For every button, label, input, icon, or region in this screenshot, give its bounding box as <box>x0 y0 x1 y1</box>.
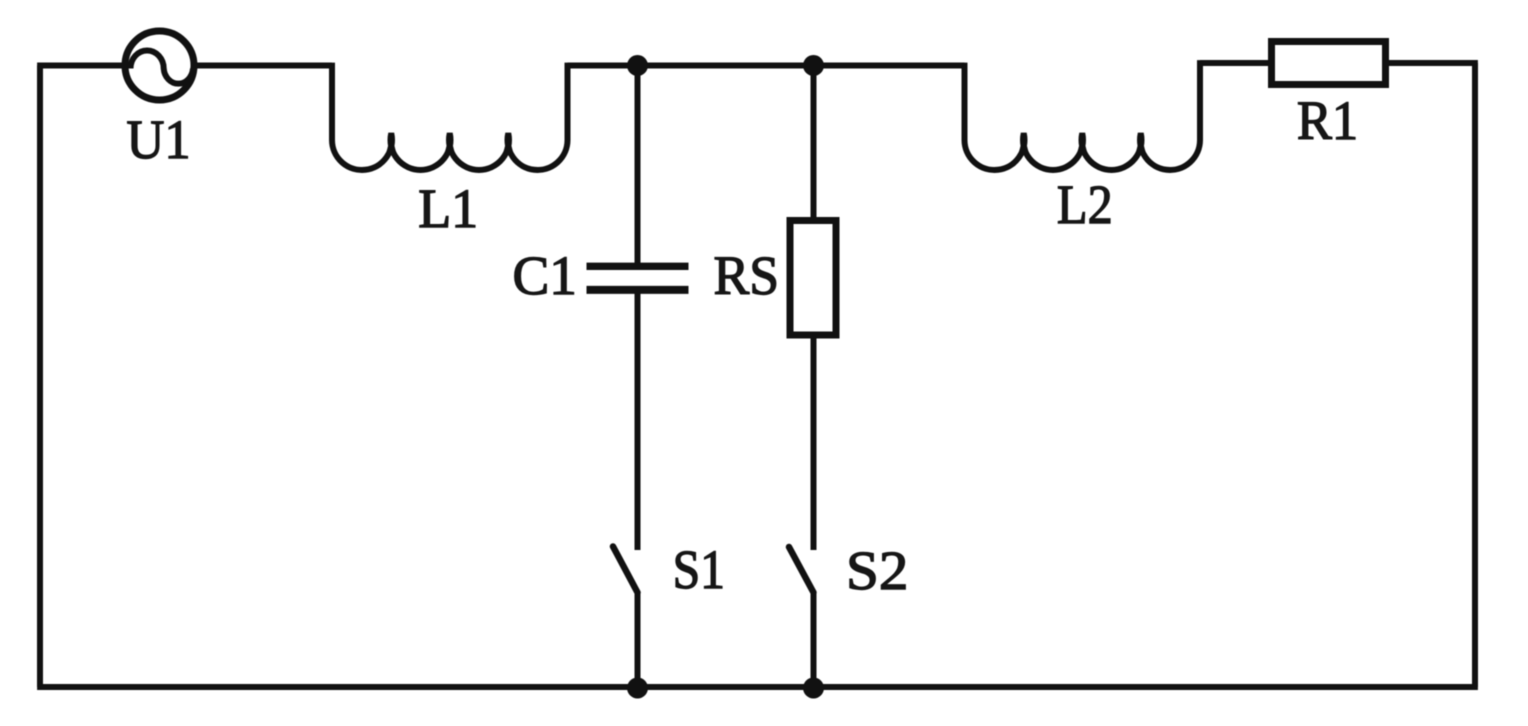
wire RS branch from node B <box>811 66 817 221</box>
wire top-left to source U1 <box>37 63 128 69</box>
inductor L1 cusp fill <box>386 133 396 155</box>
svg-text:S1: S1 <box>673 540 725 601</box>
inductor L1 cusp fill <box>445 133 455 155</box>
wire node segment L1 to L2 <box>568 63 965 69</box>
svg-text:S2: S2 <box>846 541 908 602</box>
inductor L1 cusp fill <box>503 133 513 155</box>
svg-text:L2: L2 <box>1057 175 1113 236</box>
wire L2 to resistor R1 <box>1200 60 1268 66</box>
svg-text:R1: R1 <box>1297 91 1358 152</box>
wire switch S2 to bottom rail <box>811 593 817 688</box>
inductor L2 cusp fill <box>1077 133 1087 155</box>
resistor RS <box>790 221 836 336</box>
svg-text:U1: U1 <box>127 110 191 171</box>
svg-text:L1: L1 <box>418 179 478 240</box>
wire bottom rail <box>37 684 1478 690</box>
wire C1 branch from node A <box>635 66 641 267</box>
node C junction dot (bottom of S1) <box>627 678 648 699</box>
inductor L2 cusp fill <box>1136 133 1146 155</box>
inductor L1 <box>332 63 568 170</box>
wire capacitor C1 to switch S1 <box>635 290 641 550</box>
svg-text:RS: RS <box>714 246 780 307</box>
capacitor C1 <box>587 266 689 290</box>
node A junction dot <box>627 55 648 76</box>
wire left rail <box>37 66 43 688</box>
wire resistor RS to switch S2 <box>811 336 817 550</box>
ac source U1 <box>125 31 194 100</box>
node D junction dot (bottom of S2) <box>803 678 824 699</box>
inductor L2 cusp fill <box>1019 133 1029 155</box>
resistor R1 <box>1272 42 1386 85</box>
wire R1 to right rail <box>1389 60 1478 66</box>
inductor L2 <box>965 60 1201 170</box>
wire switch S1 to bottom rail <box>635 593 641 688</box>
node B junction dot <box>803 55 824 76</box>
switch S1 blade <box>613 547 638 593</box>
wire right rail <box>1472 63 1478 687</box>
switch S2 blade <box>789 547 814 593</box>
svg-text:C1: C1 <box>513 246 577 307</box>
wire source U1 to inductor L1 <box>191 63 332 69</box>
